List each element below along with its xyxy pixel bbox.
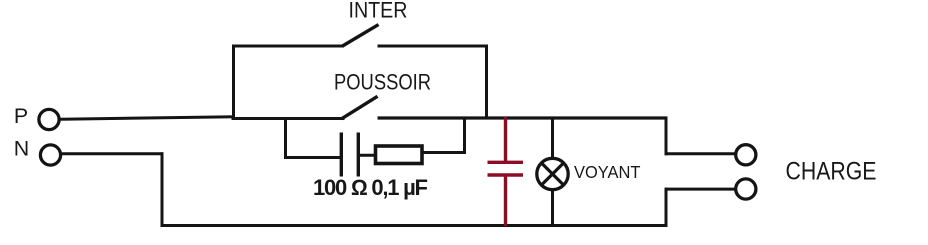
lamp VOYANT circle (537, 158, 568, 189)
capacitor C2 bottom plate (488, 173, 524, 176)
wire charge upper step vertical (665, 117, 668, 155)
capacitor C2 bottom lead (504, 176, 507, 227)
wire RC branch left leg (284, 117, 287, 159)
svg-text:100 Ω 0,1 µF: 100 Ω 0,1 µF (313, 175, 428, 200)
wire RC branch bottom left (284, 156, 342, 159)
lamp VOYANT cross stroke 1 (542, 163, 564, 185)
svg-text:N: N (14, 137, 29, 161)
wire INTER loop right leg (485, 45, 488, 120)
wire main rail right of POUSSOIR (378, 116, 668, 119)
wire main rail left of POUSSOIR (232, 117, 345, 120)
wire charge lower step vertical (665, 188, 668, 226)
wire INTER loop left leg (232, 45, 235, 120)
lamp VOYANT cross stroke 2 (542, 163, 564, 185)
wire INTER top right (378, 45, 489, 48)
wire P terminal to junction (61, 117, 236, 119)
svg-text:P: P (14, 104, 28, 128)
lamp VOYANT lead (551, 117, 554, 226)
svg-text:POUSSOIR: POUSSOIR (334, 70, 431, 95)
wire N terminal horizontal (62, 152, 164, 155)
svg-text:INTER: INTER (349, 0, 408, 23)
svg-text:CHARGE: CHARGE (786, 158, 877, 186)
wire INTER top left (232, 45, 344, 48)
wire charge upper horizontal (665, 152, 736, 155)
capacitor C1 right plate (357, 133, 360, 177)
svg-text:VOYANT: VOYANT (574, 162, 641, 182)
terminal P circle (39, 109, 59, 129)
terminal N circle (40, 145, 60, 165)
resistor R1 body (376, 146, 423, 164)
capacitor C2 top plate (488, 161, 524, 164)
switch POUSSOIR blade (342, 96, 378, 119)
wire resistor to right leg (424, 151, 467, 154)
capacitor C2 top lead (504, 117, 507, 162)
wire N vertical drop (161, 152, 164, 226)
wire bottom rail (161, 224, 668, 227)
wire charge lower horizontal (665, 188, 736, 191)
terminal CHARGE upper circle (736, 145, 756, 165)
wire RC branch right leg (463, 117, 466, 153)
capacitor C1 left plate (340, 133, 343, 177)
terminal CHARGE lower circle (736, 179, 756, 199)
wire capacitor to resistor (358, 154, 376, 157)
switch INTER blade (343, 25, 379, 46)
